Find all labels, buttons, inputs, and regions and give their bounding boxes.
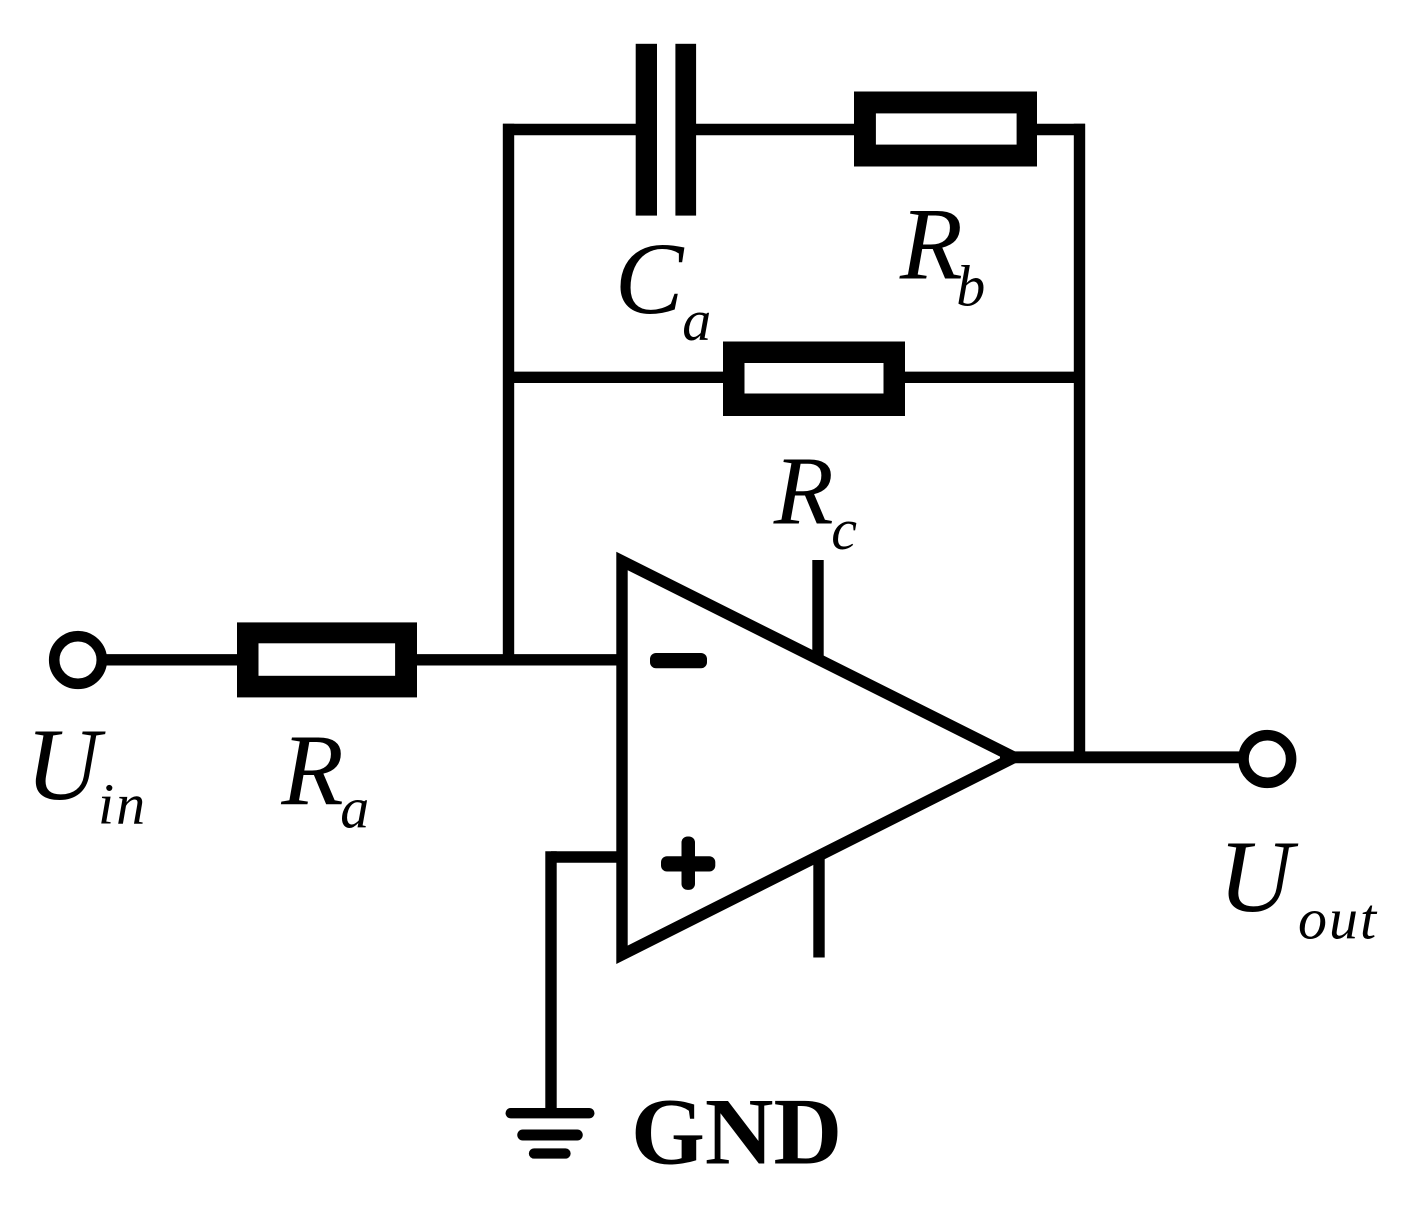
wire output <box>1000 751 1240 763</box>
svg-text:b: b <box>956 254 985 319</box>
svg-text:R: R <box>899 188 963 302</box>
svg-text:C: C <box>615 222 685 336</box>
output terminal circle <box>1244 735 1292 783</box>
wire top feedback left segment <box>503 124 650 135</box>
svg-text:GND: GND <box>631 1079 842 1185</box>
wire top feedback middle segment <box>682 124 865 135</box>
label U_out <box>1218 820 1378 951</box>
resistor R_c body <box>723 342 905 417</box>
svg-text:U: U <box>1218 820 1298 934</box>
capacitor C_a plates <box>636 44 696 216</box>
svg-text:c: c <box>831 497 857 562</box>
svg-text:R: R <box>773 437 834 545</box>
resistor R_a body <box>237 622 417 697</box>
svg-text:U: U <box>26 708 106 822</box>
svg-text:R: R <box>280 715 343 828</box>
label R_a <box>280 715 369 841</box>
label C_a <box>615 222 711 353</box>
wire feedback right vertical <box>1074 124 1085 763</box>
wire R_c row right segment <box>893 372 1085 383</box>
wire feedback left vertical <box>503 124 514 666</box>
label U_in <box>26 708 148 836</box>
wire R_a to op-amp inverting input <box>407 654 630 665</box>
svg-text:in: in <box>98 771 147 836</box>
wire non-inverting input horizontal <box>551 851 630 862</box>
svg-text:out: out <box>1298 886 1378 951</box>
resistor R_b body <box>854 92 1037 167</box>
input terminal circle <box>54 636 102 684</box>
label R_b <box>899 188 985 319</box>
wire R_c row left segment <box>503 372 735 383</box>
op-amp U1 top power pin <box>812 560 823 661</box>
op-amp U1 bottom power pin <box>813 855 824 958</box>
wire input to R_a <box>104 654 247 665</box>
svg-text:a: a <box>340 776 369 841</box>
op-amp inverting input minus symbol <box>650 653 707 668</box>
svg-text:a: a <box>682 288 711 353</box>
op-amp non-inverting input plus symbol <box>661 837 715 890</box>
ground symbol <box>511 1113 590 1153</box>
wire top feedback right segment <box>1028 124 1085 135</box>
wire non-inverting input vertical to ground <box>545 851 556 1113</box>
op-amp U1 triangle <box>622 561 1014 955</box>
label R_c <box>773 437 858 562</box>
